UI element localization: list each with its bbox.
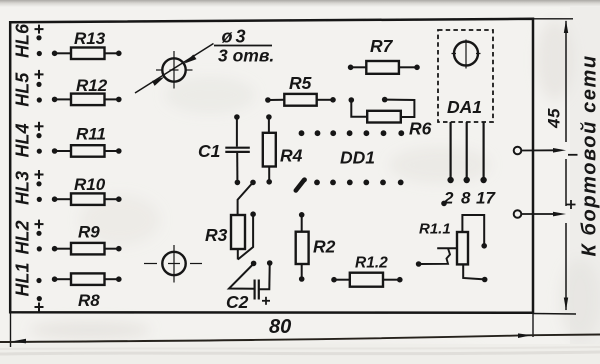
svg-text:R13: R13 xyxy=(74,29,106,48)
svg-text:R7: R7 xyxy=(370,36,394,56)
board outline xyxy=(10,19,533,313)
svg-text:80: 80 xyxy=(269,316,291,338)
resistor R5 xyxy=(265,73,336,106)
resistor R6 xyxy=(349,97,432,139)
dimension line 80 xyxy=(0,316,600,343)
svg-text:DA1: DA1 xyxy=(447,97,482,117)
svg-text:R4: R4 xyxy=(280,146,303,166)
DA1 pin 17 xyxy=(476,122,496,208)
svg-text:R1.2: R1.2 xyxy=(355,255,388,272)
LED pads group HL2 xyxy=(13,220,44,255)
pad node near R1.1 xyxy=(441,201,447,207)
LED pads group HL5 xyxy=(13,70,44,107)
wire from T2 to net (+) xyxy=(522,200,576,216)
DA1 pin 8 xyxy=(461,122,471,208)
svg-text:R3: R3 xyxy=(205,225,228,245)
svg-text:HL6: HL6 xyxy=(13,23,33,58)
wire from T1 to net xyxy=(522,148,578,155)
svg-text:3 отв.: 3 отв. xyxy=(218,46,274,66)
resistor R10 xyxy=(52,175,122,205)
LED pads group HL1 xyxy=(13,262,44,311)
svg-text:R11: R11 xyxy=(76,125,106,144)
trimmer R1.1 xyxy=(416,215,488,282)
mounting hole H2 xyxy=(144,245,202,283)
DA1 pin 2 xyxy=(443,122,454,208)
resistor R2 xyxy=(296,212,336,282)
svg-text:R9: R9 xyxy=(78,223,100,242)
resistor R1.2 xyxy=(331,255,402,287)
terminal T1 xyxy=(514,147,522,155)
svg-text:17: 17 xyxy=(476,189,496,208)
svg-text:HL2: HL2 xyxy=(13,220,33,254)
svg-text:R6: R6 xyxy=(409,119,432,139)
LED pads group HL3 xyxy=(13,170,44,205)
resistor R4 xyxy=(263,114,303,184)
capacitor C1 xyxy=(198,114,250,185)
svg-text:HL1: HL1 xyxy=(13,262,33,296)
svg-text:C2: C2 xyxy=(226,292,249,312)
leader line for hole note xyxy=(135,44,214,94)
IC DA1 xyxy=(438,30,493,122)
svg-text:R2: R2 xyxy=(313,237,336,257)
label K bortovoy seti xyxy=(579,54,600,256)
svg-text:ø3: ø3 xyxy=(222,27,249,47)
resistor R7 xyxy=(348,36,420,74)
svg-text:HL5: HL5 xyxy=(13,72,33,107)
resistor R13 xyxy=(52,29,122,59)
wire jumper at DD1 pin1 xyxy=(296,177,307,190)
resistor R12 xyxy=(52,76,122,105)
svg-text:R5: R5 xyxy=(289,73,312,93)
svg-text:HL3: HL3 xyxy=(13,171,33,205)
hole note: diameter 3, 3 holes xyxy=(214,27,274,66)
resistor R9 xyxy=(52,223,122,255)
svg-text:R10: R10 xyxy=(74,175,106,194)
LED pads group HL6 xyxy=(13,23,44,58)
svg-text:DD1: DD1 xyxy=(340,148,375,168)
resistor R8 xyxy=(52,273,122,310)
LED pads group HL4 xyxy=(13,122,44,158)
svg-text:C1: C1 xyxy=(198,141,220,161)
resistor R11 xyxy=(52,125,122,157)
capacitor C2 xyxy=(226,260,273,312)
resistor R3 xyxy=(205,180,256,260)
IC DD1 pads xyxy=(299,130,405,185)
svg-text:К бортовой сети: К бортовой сети xyxy=(579,54,600,256)
svg-text:45: 45 xyxy=(545,108,564,129)
mounting hole H1 xyxy=(156,51,193,89)
dimension line 45 xyxy=(545,20,569,311)
svg-text:HL4: HL4 xyxy=(13,123,33,157)
svg-text:8: 8 xyxy=(461,189,471,208)
terminal T2 xyxy=(514,210,522,218)
svg-text:R12: R12 xyxy=(76,76,108,95)
svg-text:R1.1: R1.1 xyxy=(419,221,451,238)
svg-text:R8: R8 xyxy=(78,291,100,310)
